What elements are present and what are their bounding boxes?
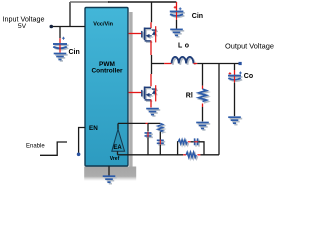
shadow of PWM controller block (bottom band) (84, 167, 136, 182)
svg-text:EA: EA (113, 145, 122, 151)
svg-text:Cin: Cin (69, 49, 80, 56)
capacitor C3 (comp series) (194, 138, 204, 154)
svg-text:Rl: Rl (186, 93, 193, 100)
wire: gate drive to Q1 (red) (129, 33, 142, 35)
node: output node (square) (239, 62, 242, 65)
wire: bottom feedback rail (118, 154, 184, 156)
capacitor C2 (comp branch 2) (157, 140, 165, 155)
wire: input node to Vcc/Vin pin (51, 26, 85, 28)
node: input node dot (50, 25, 54, 29)
enable step waveform symbol (40, 142, 67, 155)
resistor R3 (comp series) (180, 141, 189, 145)
wire: switch node (Q1 source to Q2 drain) (150, 41, 152, 56)
transistor Q1 (high-side MOSFET) (143, 29, 158, 42)
wire: inductor to output rail (194, 63, 198, 65)
svg-text:Output Voltage: Output Voltage (225, 41, 274, 50)
op-amp EA (error amplifier inside block) (113, 131, 126, 153)
resistor R1 (feedback, in bottom rail) (188, 154, 198, 159)
resistor R2 (comp branch 2) (158, 123, 165, 139)
PWM controller block U1 (85, 8, 128, 167)
svg-text:EN: EN (89, 125, 98, 132)
capacitor Cin (top, second input cap) (170, 2, 185, 29)
wire: block ground pin (108, 166, 110, 175)
wire: EA output up to comp rail (117, 123, 119, 129)
svg-text:Cin: Cin (192, 13, 203, 20)
ground under Co (230, 119, 243, 125)
wire: Q2 source to ground (150, 99, 152, 107)
svg-text:Vcc/Vin: Vcc/Vin (93, 21, 113, 27)
resistor Rl (load) (202, 64, 204, 86)
wire: feedback drop from output rail (218, 64, 220, 155)
svg-text:Vref: Vref (110, 156, 120, 162)
wire: top rail (70, 1, 109, 3)
shadow of PWM controller block (right strip) (129, 12, 132, 174)
wire: riser from input wire to top rail (69, 2, 71, 27)
wire: switch node to inductor (152, 63, 165, 65)
transistor Q2 (low-side MOSFET) (143, 88, 158, 101)
inductor Lo (173, 58, 195, 65)
ground under Rl (198, 124, 211, 130)
ground under Cin (55, 55, 68, 61)
svg-text:Enable: Enable (26, 143, 45, 149)
capacitor C1 (comp branch 1) (145, 123, 153, 154)
svg-text:Co: Co (244, 73, 253, 80)
ground under block (104, 178, 117, 184)
wire: comp upper branch left stub (177, 142, 180, 155)
capacitor Cin (input, left) (53, 27, 69, 53)
wire: EN pin wire (79, 128, 85, 154)
wire: gate drive to Q2 (red) (129, 92, 142, 94)
node: EN node dot (77, 153, 81, 157)
wire: drop from top rail to Q1 drain (151, 2, 153, 22)
ground under top Cin (172, 31, 185, 37)
svg-text:5V: 5V (18, 23, 27, 30)
svg-text:o: o (185, 42, 189, 49)
svg-text:L: L (178, 42, 183, 49)
svg-text:Controller: Controller (91, 68, 123, 75)
capacitor Co (output) (228, 64, 242, 117)
wire: Vref stub below EA (117, 151, 119, 155)
wire: comp rail (118, 122, 146, 124)
ground under Q2 (148, 110, 161, 116)
